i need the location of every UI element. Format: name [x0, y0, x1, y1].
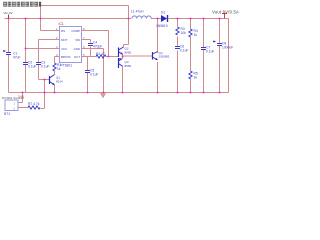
IC pin numbers — [56, 27, 85, 57]
wire totem output node — [123, 54, 153, 58]
junction (190,92) — [190, 92, 192, 94]
ground — [101, 94, 106, 98]
svg-text:1k: 1k — [194, 33, 198, 37]
transistor Q3 — [119, 58, 123, 68]
resistor R1 — [53, 63, 56, 71]
capacitor C1 — [3, 50, 11, 55]
svg-text:1000uF: 1000uF — [222, 46, 233, 50]
connector J1 battery — [5, 100, 18, 111]
resistor R4 — [189, 29, 192, 37]
svg-text:8050: 8050 — [125, 51, 132, 55]
resistor R3 — [176, 27, 179, 35]
wire Q4 collector — [157, 19, 159, 54]
op-amp IC1 box — [60, 27, 82, 63]
wire C1 column — [8, 19, 10, 93]
resistor R2 — [96, 55, 106, 58]
svg-text:0.1uF: 0.1uF — [41, 65, 49, 69]
svg-text:9014: 9014 — [56, 80, 63, 84]
junction (44,80) — [44, 79, 46, 81]
svg-text:Vin 3V: Vin 3V — [4, 11, 14, 15]
capacitor C7 — [201, 48, 206, 50]
wire Q1 emitter to ground — [54, 85, 56, 93]
capacitor C5 — [85, 71, 90, 73]
svg-text:SW: SW — [75, 38, 80, 42]
junction (8,18) — [8, 18, 10, 20]
svg-text:3.6V: 3.6V — [18, 95, 24, 99]
junction (22,92) — [22, 92, 24, 94]
wire Q2 collector — [124, 19, 129, 48]
svg-text:VCC: VCC — [61, 47, 67, 51]
svg-text:47uF: 47uF — [13, 56, 21, 60]
junction (122,56) — [122, 56, 124, 58]
resistor R5 — [189, 71, 192, 79]
svg-text:IC1: IC1 — [59, 22, 64, 26]
junction (26,48) — [25, 48, 27, 50]
wire pin2 — [39, 39, 60, 41]
wire pin5 out — [82, 56, 119, 58]
svg-text:R7 4.7k: R7 4.7k — [28, 102, 40, 106]
junction (204,92) — [203, 92, 205, 94]
junction (158,18) — [157, 18, 159, 20]
svg-text:BT1: BT1 — [4, 112, 10, 116]
inductor L1 — [132, 16, 151, 19]
wire battery minus to R7 — [18, 107, 28, 109]
svg-text:BRS/TL: BRS/TL — [61, 55, 72, 59]
wire battery feedback drop — [41, 80, 45, 109]
svg-text:8550: 8550 — [125, 64, 132, 68]
capacitor C3 — [36, 63, 41, 65]
svg-text:1k: 1k — [57, 67, 61, 71]
IC pin names — [61, 29, 80, 59]
wire D1 to Vout rail — [169, 18, 229, 20]
wire pin7 — [82, 40, 91, 57]
wire Q3 collector to ground — [122, 66, 124, 93]
capacitor C8 — [213, 40, 222, 45]
wire C2 column — [25, 19, 27, 93]
junction (40,18) — [40, 18, 42, 20]
junction (220,92) — [219, 92, 221, 94]
Vin power tick — [8, 15, 10, 19]
svg-text:COMP: COMP — [71, 29, 80, 33]
wire C5 branch — [87, 57, 89, 93]
svg-text:2SD882: 2SD882 — [159, 55, 170, 59]
svg-text:R2 47: R2 47 — [96, 52, 105, 56]
junction (128,18) — [128, 18, 130, 20]
capacitor C6 — [175, 47, 180, 49]
svg-text:OUT: OUT — [74, 55, 80, 59]
wire pin4 — [55, 56, 60, 58]
wire right edge return — [228, 19, 230, 93]
wire C8 column — [219, 19, 221, 93]
svg-text:1k: 1k — [194, 76, 198, 80]
wire Q4 emitter — [157, 62, 159, 93]
svg-text:RS: RS — [61, 29, 65, 33]
junction (122,92) — [122, 92, 124, 94]
capacitor C4 — [88, 44, 93, 46]
junction (178,18) — [177, 18, 179, 20]
svg-text:1N5819: 1N5819 — [156, 24, 168, 28]
wire — [40, 6, 42, 19]
wire ground rail — [9, 92, 229, 94]
wire — [128, 6, 130, 19]
junction (158,92) — [157, 92, 159, 94]
junction (178,92) — [177, 92, 179, 94]
junction (104,92) — [103, 92, 105, 94]
Vout power tick — [222, 14, 227, 19]
svg-text:10k: 10k — [181, 31, 187, 35]
wire L1 to D1 — [151, 18, 161, 20]
junction (190,18) — [190, 18, 192, 20]
junction (26,18) — [25, 18, 27, 20]
wire battery plus riser — [18, 93, 23, 103]
title 改装手电筒电路设计 — [3, 2, 41, 7]
svg-text:PT6301: PT6301 — [61, 64, 73, 68]
wire R4 column — [190, 19, 192, 93]
junction (204,18) — [203, 18, 205, 20]
wire R3 column — [177, 19, 179, 93]
wire C7 column — [203, 19, 205, 93]
wire Q1 base — [39, 79, 50, 81]
transistor Q2 — [119, 47, 124, 57]
junction (54,92) — [54, 92, 56, 94]
wire Vin rail — [5, 18, 132, 20]
svg-text:L1 47uH: L1 47uH — [131, 10, 144, 14]
wire pin3 — [26, 48, 60, 50]
svg-text:D1: D1 — [161, 11, 165, 15]
resistor R7 — [28, 106, 40, 109]
wire R1 leads — [54, 57, 56, 75]
transistor Q4 — [153, 52, 158, 61]
svg-text:GND: GND — [74, 47, 80, 51]
svg-text:0.1uF: 0.1uF — [28, 65, 36, 69]
svg-text:0.1uF: 0.1uF — [206, 50, 214, 54]
svg-text:470pF: 470pF — [93, 45, 102, 49]
svg-text:0.1uF: 0.1uF — [180, 49, 188, 53]
capacitor C2 — [23, 63, 28, 65]
wire pin1 — [41, 19, 60, 31]
wire pin8 comp — [82, 31, 109, 57]
wire pin6 gnd — [82, 49, 104, 93]
wire C3 column — [38, 40, 40, 80]
junction (220,18) — [219, 18, 221, 20]
transistor Q1 — [50, 75, 55, 86]
junction (108,56) — [108, 56, 110, 58]
diode D1 — [161, 15, 168, 22]
junction (88,92) — [87, 92, 89, 94]
wire top bridge — [41, 5, 129, 7]
svg-text:0.1uF: 0.1uF — [90, 73, 98, 77]
svg-text:MOT: MOT — [61, 38, 68, 42]
junction (44,92) — [44, 92, 46, 94]
